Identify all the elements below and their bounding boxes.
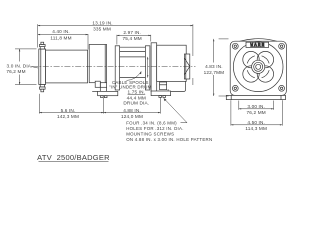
gear housing lower lobe [168,81,186,91]
dim text 3.0 IN DIA / 76,2 MM [6,64,32,75]
drum dia fraction line [128,93,146,95]
dim 13.19 IN extension left [37,24,39,47]
dim 4.40 IN line [38,34,88,50]
svg-text:75,4 MM: 75,4 MM [123,36,142,41]
svg-text:124,0 MM: 124,0 MM [121,114,143,119]
svg-text:4.40 IN.: 4.40 IN. [52,29,70,34]
mounting base channel [226,95,285,99]
gear housing lower steps [160,82,167,90]
dim 5.6 IN line [39,98,103,114]
svg-text:13.19 IN.: 13.19 IN. [92,20,112,25]
svg-text:"IN" UNDER DRUM: "IN" UNDER DRUM [109,84,152,89]
dim text 1.75 IN / 44,4 MM / DRUM DIA [123,90,149,106]
title underline [39,161,109,163]
gear housing [157,45,187,81]
clutch hub center [256,64,261,69]
clutch knob silhouette [243,51,274,82]
svg-text:122,7MM: 122,7MM [204,70,225,75]
svg-text:MOUNTING SCREWS: MOUNTING SCREWS [126,131,174,136]
dim text 4.50 IN / 114,3 MM [245,120,267,131]
right foot bolt tips [159,96,166,98]
svg-text:4.88 IN.: 4.88 IN. [123,108,141,113]
svg-text:76,2 MM: 76,2 MM [6,69,25,74]
dim 1.75 drum dia vertical [147,57,148,78]
upper tie bar [120,47,146,51]
clutch lobe inner arc SE [262,70,270,78]
left drum support bracket [89,45,106,83]
centerline [32,66,196,68]
corner bolt hole bottom-right [279,85,285,91]
cable exit line [92,91,97,93]
clutch hub inner ring [254,62,263,71]
left mounting foot pad [98,91,118,95]
clutch knob lobe SW [243,66,259,82]
clutch hub outer ring [252,60,265,73]
svg-text:HOLES FOR .312 IN. DIA.: HOLES FOR .312 IN. DIA. [126,126,183,131]
WARN logo plate [246,42,269,48]
drum support bore circle [233,42,283,92]
corner bolt hole bottom-left [232,85,238,91]
dim 4.83 IN vertical [213,39,229,96]
dim 4.50 IN extensions [231,100,282,125]
svg-text:ON 4.88 IN. x 3.00 IN. HOLE PA: ON 4.88 IN. x 3.00 IN. HOLE PATTERN [126,137,212,142]
note leader line [164,98,187,123]
svg-text:335 MM: 335 MM [93,26,111,31]
end view plate [230,41,286,95]
cable note leader arc [127,71,142,80]
svg-text:1.75 IN.: 1.75 IN. [127,90,145,95]
svg-text:DRUM DIA.: DRUM DIA. [123,101,149,106]
svg-text:FOUR .34 IN. (8,6 MM): FOUR .34 IN. (8,6 MM) [126,120,177,125]
svg-text:4.83 IN.: 4.83 IN. [205,64,223,69]
svg-text:WARN: WARN [250,43,265,48]
top tie-rod bolt [40,42,46,49]
dim 13.19 IN extension right [192,24,194,85]
dim 3.0 DIA vertical line [15,49,38,85]
left foot column [100,83,106,92]
svg-text:3.00 IN.: 3.00 IN. [247,104,265,109]
dim 4.88 IN line [104,98,161,114]
svg-text:142,3 MM: 142,3 MM [57,114,79,119]
left foot bolt tips [101,96,107,98]
corner bolt hole top-left [232,43,238,49]
dim text 3.00 IN / 76,2 MM [247,104,266,115]
dim 4.50 IN line [231,124,282,125]
dim 13.19 IN line [38,25,193,26]
clutch lobe inner arc NW [247,56,255,64]
drum right flange [145,46,150,90]
svg-text:2.97 IN.: 2.97 IN. [123,30,141,35]
dim 2.97 IN extensions [117,35,151,45]
motor end plate [39,49,46,85]
svg-text:3.0 IN. DIA.: 3.0 IN. DIA. [6,64,32,69]
left bracket clamp plate [95,81,100,87]
svg-text:111,8 MM: 111,8 MM [50,36,71,41]
note cable spools [109,80,152,89]
mounting note text [126,120,212,141]
clutch knob side view [184,54,189,79]
corner bolt hole top-right [279,43,285,49]
drum barrel [120,57,146,78]
end view top dome [240,39,278,42]
motor cylinder [46,50,88,83]
drum left flange [115,46,119,90]
dim 2.97 IN line [117,35,151,36]
dim 5.6 IN extension left [38,94,40,114]
svg-text:5.6 IN.: 5.6 IN. [61,108,76,113]
svg-text:76,2 MM: 76,2 MM [247,110,266,115]
dim text 4.40 IN / 111,8 MM [50,29,71,40]
dim text 4.83 IN / 122,7MM [204,64,225,75]
dim 3.00 IN line [239,108,274,109]
svg-text:44,4 MM: 44,4 MM [127,95,146,100]
clutch knob lobe SE [257,66,273,82]
clutch lobe inner arc SW [247,70,255,78]
svg-text:4.50 IN.: 4.50 IN. [247,120,265,125]
dim 3.00 IN extensions [239,101,274,110]
svg-text:ATV 2500/BADGER: ATV 2500/BADGER [37,153,110,162]
clutch knob lobe NE [257,51,273,67]
dim text 2.97 IN / 75,4 MM [123,30,142,41]
right drum support bracket [151,43,157,92]
clutch lobe inner arc NE [262,56,270,64]
dim text 13.19 IN / 335 MM [92,20,112,31]
clutch knob lobe NW [243,51,259,67]
svg-text:114,3 MM: 114,3 MM [245,126,267,131]
right mounting foot pad [151,91,171,96]
dim text 5.6 IN / 142,3 MM [57,108,79,119]
bottom tie-rod bolt [40,85,46,92]
dim text 4.88 IN / 124,0 MM [121,108,143,119]
